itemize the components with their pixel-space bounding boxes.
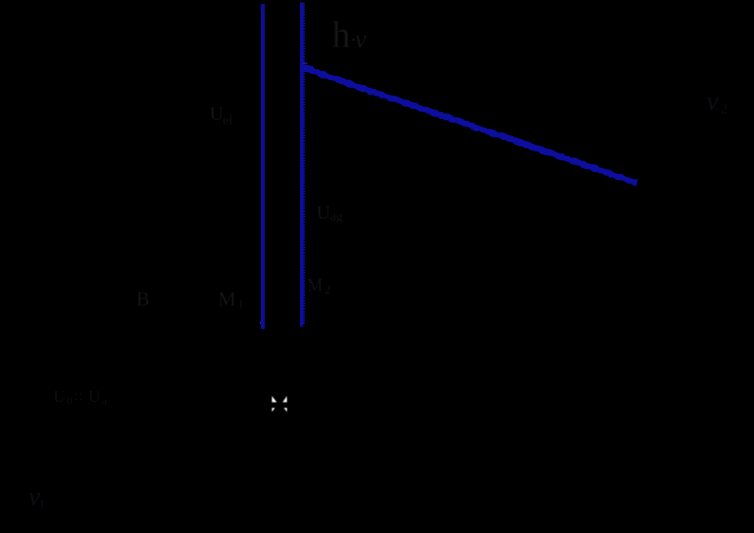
svg-text:U: U bbox=[88, 387, 100, 406]
svg-text:el: el bbox=[223, 113, 233, 128]
plate M2 left edge roughness bbox=[299, 3, 302, 327]
label U_ag bbox=[317, 203, 343, 224]
svg-text:2: 2 bbox=[721, 103, 728, 118]
svg-text:1: 1 bbox=[39, 497, 46, 512]
svg-text:U: U bbox=[54, 387, 66, 406]
label M1 bbox=[218, 288, 244, 311]
plate M1 small notch bbox=[259, 322, 262, 324]
label M2 bbox=[307, 275, 331, 297]
plate M2 (right electrode) bbox=[300, 3, 303, 327]
svg-text:ν: ν bbox=[355, 25, 367, 54]
svg-text:M: M bbox=[218, 288, 236, 310]
svg-text:M: M bbox=[307, 275, 323, 295]
svg-text:1: 1 bbox=[237, 296, 244, 311]
svg-text:U: U bbox=[317, 203, 331, 224]
svg-text:U: U bbox=[210, 104, 224, 125]
label v2 bbox=[707, 86, 728, 118]
label v1 bbox=[29, 482, 46, 512]
svg-text:2: 2 bbox=[324, 282, 331, 297]
svg-text:0: 0 bbox=[67, 396, 73, 408]
label U_el bbox=[210, 104, 233, 128]
spur at ray origin bbox=[303, 63, 308, 64]
svg-text:h: h bbox=[332, 14, 350, 55]
plate M2 hatching teeth bbox=[302, 3, 306, 327]
svg-text:∶: ∶ bbox=[74, 390, 77, 405]
plate M1 (left electrode) bbox=[261, 4, 265, 329]
svg-text:a: a bbox=[102, 396, 107, 408]
svg-text:v: v bbox=[707, 86, 719, 116]
cursor (white X of 4 triangles) bbox=[272, 396, 287, 412]
svg-text:ag: ag bbox=[330, 209, 343, 224]
ray root wedge at plate bbox=[303, 64, 314, 71]
svg-text:B: B bbox=[136, 288, 149, 310]
label U_0 : : U_a bbox=[54, 387, 107, 407]
label h*nu bbox=[332, 14, 367, 55]
svg-text:∶: ∶ bbox=[79, 390, 82, 405]
light ray h*nu (jagged diagonal) bbox=[301, 64, 638, 186]
